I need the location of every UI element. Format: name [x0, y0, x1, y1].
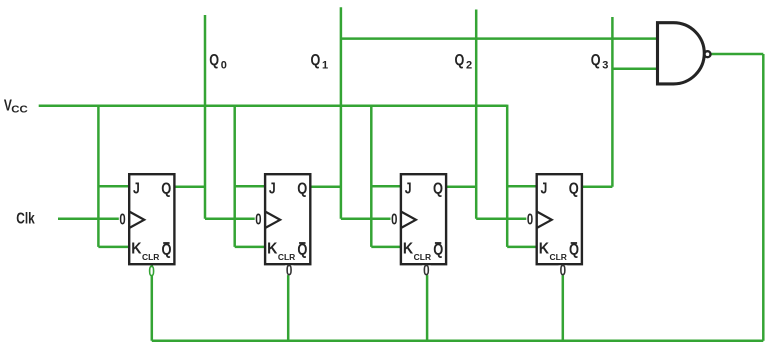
- svg-text:CLR: CLR: [142, 253, 160, 262]
- svg-text:J: J: [405, 181, 412, 198]
- svg-text:0: 0: [119, 212, 125, 229]
- svg-text:J: J: [541, 181, 548, 198]
- svg-text:Q: Q: [455, 52, 465, 69]
- svg-text:Q: Q: [161, 181, 171, 198]
- svg-text:Q: Q: [591, 52, 601, 69]
- svg-text:CC: CC: [11, 103, 28, 115]
- svg-text:0: 0: [286, 263, 293, 280]
- svg-text:3: 3: [602, 60, 608, 72]
- svg-text:Q: Q: [297, 242, 307, 259]
- svg-text:J: J: [133, 181, 140, 198]
- svg-text:K: K: [131, 241, 142, 258]
- svg-text:J: J: [269, 181, 276, 198]
- svg-text:1: 1: [322, 60, 328, 72]
- svg-text:Q: Q: [311, 52, 321, 69]
- svg-text:K: K: [403, 241, 414, 258]
- svg-text:0: 0: [423, 263, 430, 280]
- svg-text:Q: Q: [569, 242, 579, 259]
- svg-text:0: 0: [255, 212, 261, 229]
- svg-text:Clk: Clk: [16, 210, 35, 227]
- svg-text:0: 0: [221, 60, 227, 72]
- svg-text:Q: Q: [433, 242, 443, 259]
- svg-text:Q: Q: [569, 181, 579, 198]
- svg-text:Q: Q: [297, 181, 307, 198]
- svg-text:Q: Q: [209, 52, 219, 69]
- svg-text:0: 0: [560, 263, 567, 280]
- svg-text:K: K: [539, 241, 550, 258]
- svg-text:2: 2: [466, 60, 472, 72]
- svg-text:0: 0: [391, 212, 397, 229]
- svg-text:Q: Q: [433, 181, 443, 198]
- svg-text:CLR: CLR: [550, 253, 568, 262]
- svg-text:Q: Q: [162, 242, 172, 259]
- svg-text:0: 0: [148, 264, 155, 281]
- svg-text:0: 0: [527, 212, 533, 229]
- svg-text:K: K: [267, 241, 278, 258]
- svg-text:CLR: CLR: [278, 253, 296, 262]
- svg-text:CLR: CLR: [414, 253, 432, 262]
